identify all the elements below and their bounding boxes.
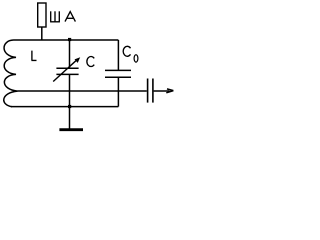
wire C0 bottom plate down to bottom rail (117, 77, 119, 106)
wire right corner down to C0 (117, 40, 119, 70)
variable arrow shaft (53, 59, 77, 81)
wire top rail to C top plate (69, 40, 71, 68)
variable arrow head (75, 57, 81, 63)
node junction dot on top rail (68, 38, 71, 41)
wire C bottom plate through bottom rail to ground (69, 74, 71, 128)
capacitor C0 bottom plate (105, 76, 131, 78)
label C0 subscript 0 (134, 55, 138, 62)
label ША letter А (65, 12, 75, 22)
coupling capacitor left plate (147, 79, 149, 103)
wire resistor to top rail (41, 27, 43, 40)
label L (31, 51, 36, 61)
label C (87, 57, 94, 67)
coupling capacitor right plate (152, 79, 154, 103)
wire bottom rail (11, 106, 118, 108)
label ША letter Ш (50, 11, 60, 21)
resistor R1 (antenna box ША) (38, 3, 46, 27)
capacitor C0 top plate (105, 69, 131, 71)
wire top rail (14, 39, 119, 41)
wire tap line to coupling capacitor (18, 90, 147, 92)
output arrow head (166, 89, 173, 93)
label C0 letter C (123, 46, 130, 56)
wire output (154, 90, 170, 92)
inductor L coil (4, 40, 18, 107)
capacitor C variable: bottom plate (56, 73, 78, 75)
node junction dot on bottom rail (68, 105, 71, 108)
ground (59, 128, 83, 131)
capacitor C variable: top plate (56, 67, 78, 69)
